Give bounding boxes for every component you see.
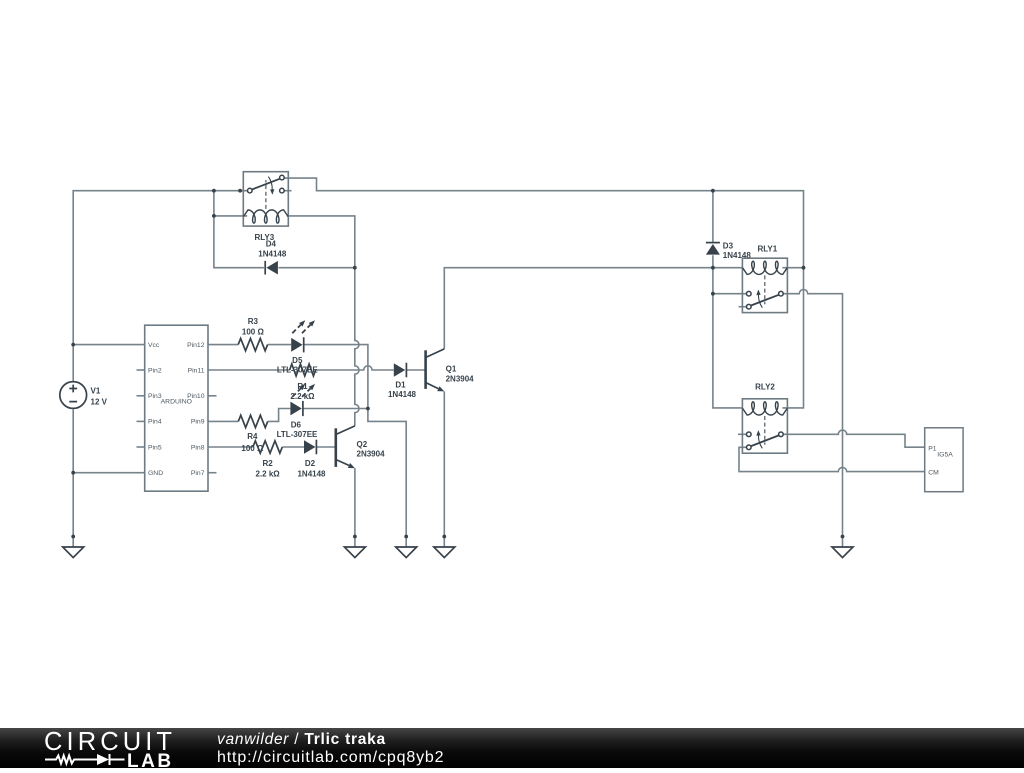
wire RLY3 coil right to Q2 collector xyxy=(287,216,359,426)
relay RLY2 xyxy=(742,399,787,453)
wire RLY1 NO left xyxy=(713,293,747,295)
svg-text:12 V: 12 V xyxy=(91,397,108,406)
wire R3 to D5 xyxy=(268,344,292,346)
wire Pin8 to R2 xyxy=(208,446,253,448)
svg-text:IG5A: IG5A xyxy=(937,451,953,458)
wire Pin9 to R4 xyxy=(208,420,238,422)
svg-text:2N3904: 2N3904 xyxy=(357,449,386,458)
diode D2 xyxy=(304,440,315,454)
svg-text:Pin9: Pin9 xyxy=(191,419,205,426)
svg-text:Pin11: Pin11 xyxy=(188,367,205,374)
diode D4 xyxy=(266,261,278,275)
wire R1 to D1 xyxy=(316,366,394,370)
pin stub Pin4 xyxy=(137,420,145,422)
wire D3 anode down to RLY2 coil xyxy=(713,255,743,408)
svg-text:LTL-307EE: LTL-307EE xyxy=(277,366,318,375)
svg-text:ARDUINO: ARDUINO xyxy=(161,399,192,406)
pin stub Pin3 xyxy=(137,395,145,397)
wire V1 bottom to ground xyxy=(72,409,74,547)
wire RLY1 NC stub xyxy=(739,306,747,308)
svg-text:P1: P1 xyxy=(928,445,937,452)
wire D3 cathode up xyxy=(712,191,714,243)
voltage source V1 xyxy=(60,382,108,409)
svg-text:2N3904: 2N3904 xyxy=(446,374,475,383)
title text xyxy=(217,731,386,749)
ground Q1 emitter xyxy=(434,547,455,558)
diode D1 xyxy=(394,363,405,377)
svg-text:Pin8: Pin8 xyxy=(191,444,205,451)
svg-text:V1: V1 xyxy=(91,386,101,395)
wire RLY1 coil left xyxy=(713,267,743,269)
svg-text:Pin7: Pin7 xyxy=(191,470,205,477)
wire D1 to Q1 base xyxy=(406,369,424,371)
svg-text:D3: D3 xyxy=(723,241,734,250)
wire RLY1 coil right xyxy=(782,267,803,269)
transistor Q1 2N3904 xyxy=(426,349,475,392)
svg-text:D6: D6 xyxy=(291,420,302,429)
resistor R4 xyxy=(238,415,267,427)
wire V1 top to RLY3 left xyxy=(73,191,247,381)
wire Q2 emitter to ground xyxy=(354,468,356,547)
relay RLY3 xyxy=(243,172,288,226)
IC U1 ARDUINO xyxy=(145,325,208,491)
wire RLY2 common to P1 xyxy=(783,430,925,447)
LED D5 xyxy=(291,338,302,352)
pin stub Pin2 xyxy=(137,369,145,371)
transistor Q2 2N3904 xyxy=(336,426,385,468)
resistor R3 xyxy=(238,338,267,350)
wire Pin11 to R1 xyxy=(208,369,290,371)
pin stub Pin10 xyxy=(208,395,217,397)
wire RLY3 NC stub xyxy=(284,190,292,192)
ground RLY1 common xyxy=(832,547,853,558)
resistor R2 xyxy=(253,441,282,453)
svg-text:Pin12: Pin12 xyxy=(187,342,205,349)
svg-text:Pin4: Pin4 xyxy=(148,419,162,426)
wire Pin12 to R3 xyxy=(208,344,238,346)
wire RLY1 common to ground xyxy=(783,290,842,547)
svg-text:Q1: Q1 xyxy=(446,365,457,374)
svg-text:100 Ω: 100 Ω xyxy=(242,328,265,337)
svg-text:2.2 kΩ: 2.2 kΩ xyxy=(255,469,280,478)
svg-text:RLY1: RLY1 xyxy=(757,244,777,253)
resistor R1 xyxy=(290,364,316,376)
url text xyxy=(217,749,444,767)
svg-text:R4: R4 xyxy=(247,432,258,441)
wire junction dots xyxy=(71,189,844,539)
svg-text:LTL-307EE: LTL-307EE xyxy=(277,430,318,439)
ground Q2 emitter xyxy=(344,547,365,558)
pin stub Pin7 xyxy=(208,472,217,474)
svg-text:GND: GND xyxy=(148,470,163,477)
wire D2 to Q2 base xyxy=(316,446,334,448)
diode D3 xyxy=(706,244,720,255)
wire R4 jog up to D6 xyxy=(268,409,291,422)
wire D4 branch left xyxy=(214,191,264,268)
svg-text:D5: D5 xyxy=(292,356,303,365)
svg-text:RLY2: RLY2 xyxy=(755,383,775,392)
svg-text:R2: R2 xyxy=(262,459,273,468)
svg-text:1N4148: 1N4148 xyxy=(297,469,326,478)
wire RLY2 NC to CM xyxy=(739,447,925,471)
logo resistor-diode glyph and LAB xyxy=(44,752,174,768)
footer bar xyxy=(0,728,1024,768)
svg-text:CM: CM xyxy=(928,470,939,477)
svg-text:D2: D2 xyxy=(305,459,316,468)
svg-text:Pin2: Pin2 xyxy=(148,367,162,374)
CircuitLab logo text xyxy=(44,728,176,757)
svg-text:1N4148: 1N4148 xyxy=(258,250,287,259)
wire D4 anode to node xyxy=(278,267,354,269)
wire GND row xyxy=(73,472,145,474)
svg-text:Pin5: Pin5 xyxy=(148,444,162,451)
svg-text:Q2: Q2 xyxy=(357,440,368,449)
svg-text:R3: R3 xyxy=(248,317,259,326)
relay RLY1 xyxy=(742,258,787,312)
ground V1 xyxy=(63,547,84,558)
connector P1 IG5A xyxy=(925,428,963,492)
wire RLY3 NO contact to top net xyxy=(284,178,804,408)
wire R2 to D2 xyxy=(282,446,304,448)
svg-text:1N4148: 1N4148 xyxy=(388,390,417,399)
wire Vcc row xyxy=(73,344,145,346)
wire D6 cathode to bus xyxy=(303,408,368,410)
svg-text:RLY3: RLY3 xyxy=(254,233,274,242)
pin stub Pin5 xyxy=(137,446,145,448)
svg-text:Vcc: Vcc xyxy=(148,342,160,349)
wire RLY3 coil left xyxy=(214,215,247,217)
LED D6 xyxy=(290,402,301,416)
wire RLY2 NO stub xyxy=(738,433,746,435)
wire Q1 emitter to ground xyxy=(443,391,445,547)
ground LED bus xyxy=(396,547,417,558)
wire D5 cathode to LED bus xyxy=(304,345,407,547)
wire Q1 collector to RLY1 coil xyxy=(444,268,713,349)
svg-text:D1: D1 xyxy=(395,381,406,390)
